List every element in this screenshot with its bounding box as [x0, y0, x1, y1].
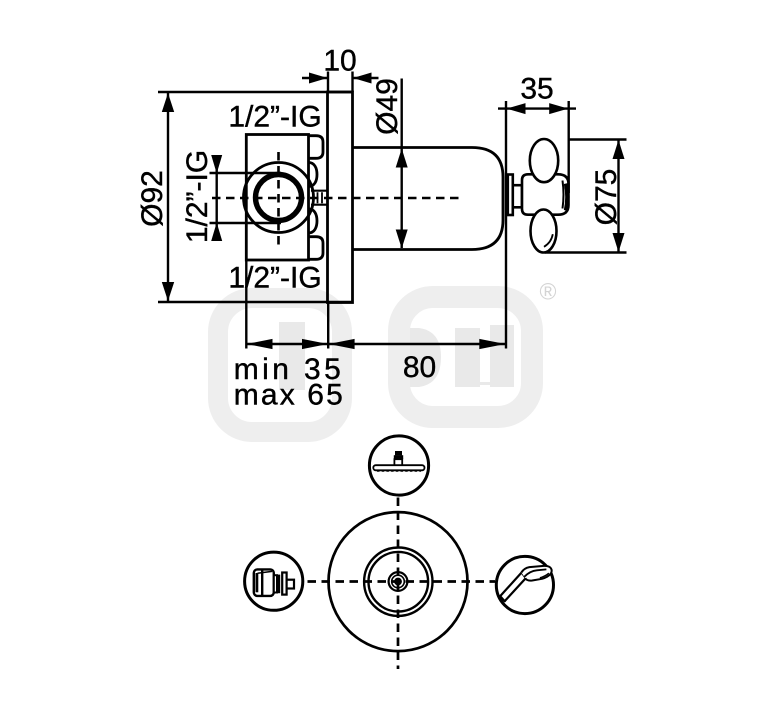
svg-text:80: 80 [403, 351, 436, 384]
svg-text:35: 35 [520, 72, 553, 105]
svg-text:max 65: max 65 [234, 378, 343, 411]
svg-text:1/2”-IG: 1/2”-IG [228, 262, 321, 295]
svg-text:Ø92: Ø92 [136, 170, 169, 227]
svg-text:1/2”-IG: 1/2”-IG [181, 150, 214, 243]
svg-text:®: ® [540, 279, 557, 305]
svg-text:10: 10 [323, 44, 356, 77]
svg-text:Ø75: Ø75 [590, 169, 623, 226]
svg-text:1/2”-IG: 1/2”-IG [228, 101, 321, 134]
svg-text:Ø49: Ø49 [371, 78, 404, 135]
